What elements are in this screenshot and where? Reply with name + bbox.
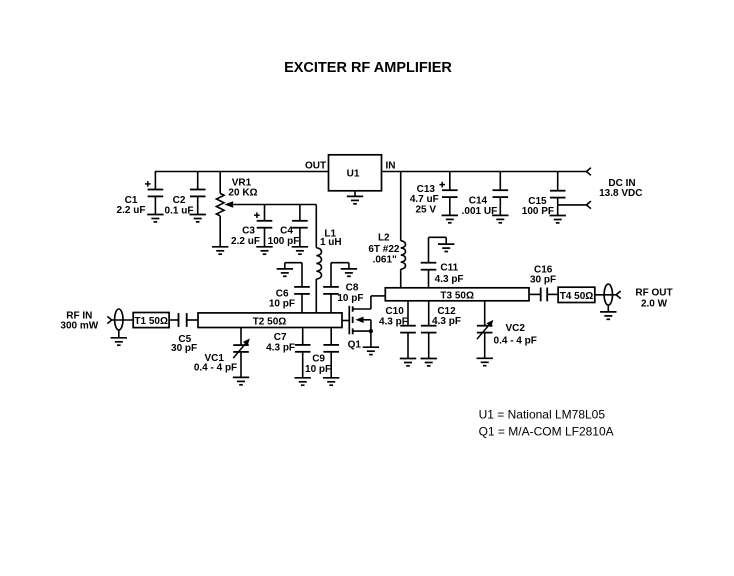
connector: RF OUT jack (coax) [604,284,612,312]
svg-text:U1: U1 [347,169,360,180]
svg-text:T3 50Ω: T3 50Ω [440,291,474,302]
wire: L1 to T2 [315,279,317,313]
capacitor C3 [231,205,272,247]
svg-text:OUT: OUT [305,161,326,172]
svg-text:L2: L2 [378,232,390,243]
wire: DC return from C15 [558,204,587,206]
node RF OUT label [635,288,672,310]
svg-text:2.2 uF: 2.2 uF [231,236,260,247]
svg-text:VC2: VC2 [505,323,525,334]
svg-text:Q1: Q1 [348,339,362,350]
note: U1 part number [479,408,606,422]
wire: U1 OUT rail [155,171,329,173]
svg-text:C11: C11 [440,263,458,274]
transmission line T3 [385,288,529,302]
title [284,60,452,76]
wire: C16 to T4 [547,293,558,295]
svg-text:4.3 pF: 4.3 pF [379,316,408,327]
svg-text:4.3 pF: 4.3 pF [266,342,295,353]
connector: DC IN return pin [587,201,591,209]
connector: DC IN positive pin [587,168,591,176]
ground of VR1 [212,247,228,254]
ground of RF OUT jack [600,312,616,319]
svg-text:1 uH: 1 uH [320,237,342,248]
note: Q1 part number [479,425,614,439]
svg-text:100 pF: 100 pF [268,236,300,247]
ground of C12 [421,359,437,366]
svg-text:100 PF: 100 PF [522,206,554,217]
svg-text:0.4 - 4 pF: 0.4 - 4 pF [494,335,537,346]
wire: C5 to T2 [187,319,198,321]
connector: RF IN plug [107,316,112,323]
transmission line T4 [558,287,595,302]
svg-text:0.4 - 4 pF: 0.4 - 4 pF [194,362,237,373]
capacitor C15 [522,172,566,218]
wire: T3 to C16 [529,293,541,295]
svg-text:2.0 W: 2.0 W [641,299,668,310]
node RF IN label [60,311,98,332]
wire: L2 to T3 [400,269,402,288]
inductor L2 [368,232,405,269]
ground of RF IN jack [111,338,127,345]
svg-text:30 pF: 30 pF [530,275,556,286]
transmission line T2 [198,313,342,328]
inductor L1 [316,228,341,279]
capacitor C2 [165,172,206,217]
ground of C7 [295,378,311,385]
svg-text:300 mW: 300 mW [60,320,98,331]
connector: RF IN jack (coax) [115,309,123,338]
capacitor C10 [379,301,416,359]
ground of C10 [400,359,416,366]
capacitor C9 [305,328,339,378]
svg-text:Q1 = M/A-COM LF2810A: Q1 = M/A-COM LF2810A [479,425,614,439]
ground of VC1 [233,377,249,384]
ground of C2 [190,215,206,222]
capacitor C4 [268,205,308,247]
connector: RF OUT pin [616,291,621,299]
svg-text:EXCITER RF AMPLIFIER: EXCITER RF AMPLIFIER [284,60,452,76]
wire: T4 to RF OUT jack [595,294,616,296]
svg-text:RF OUT: RF OUT [635,288,672,299]
capacitor C11 [421,237,464,287]
wire: U1 IN / DC rail [382,171,587,173]
node: Q1 source junction [369,329,373,333]
op-amp U1 (voltage regulator box) [305,155,396,191]
capacitor C12 [421,301,461,359]
ground of C8 [341,269,357,276]
ground of C9 [323,378,339,385]
svg-text:4.3 pF: 4.3 pF [432,316,461,327]
capacitor VC2 (variable) [477,301,537,359]
capacitor C6 [269,263,310,313]
wire: Q1 source to ground [370,331,372,347]
ground of C3 [256,247,272,254]
svg-text:10 pF: 10 pF [337,293,363,304]
ground of C14 [492,215,508,222]
capacitor VC1 (variable) [194,328,250,378]
svg-text:IN: IN [386,161,396,172]
capacitor C7 [266,328,310,378]
capacitor C5 [171,313,197,354]
capacitor C16 [530,265,556,302]
capacitor C8 [323,263,363,313]
ground of C15 [550,216,566,223]
ground of U1 [347,191,363,204]
transmission line T1 [133,313,169,328]
svg-text:20 KΩ: 20 KΩ [228,188,257,199]
wire: T1 to C5 [169,319,178,321]
wire: VR1 wiper to L1 [233,205,316,248]
ground of VC2 [477,358,493,365]
svg-text:U1 = National LM78L05: U1 = National LM78L05 [479,408,606,422]
ground of C4 [292,247,308,254]
svg-text:T2 50Ω: T2 50Ω [253,316,287,327]
svg-text:.061": .061" [373,254,397,265]
svg-text:30 pF: 30 pF [171,343,197,354]
resistor VR1 (potentiometer 20 K) [216,172,257,247]
svg-text:2.2 uF: 2.2 uF [117,205,146,216]
ground of C11 [438,244,454,251]
svg-text:13.8 VDC: 13.8 VDC [599,188,642,199]
svg-text:.001 UF: .001 UF [462,206,498,217]
ground of C6 [277,269,293,276]
svg-text:T4 50Ω: T4 50Ω [560,291,594,302]
svg-text:10 pF: 10 pF [305,364,331,375]
svg-text:0.1 uF: 0.1 uF [165,205,194,216]
capacitor C1 [117,172,164,217]
transistor Q1 (MOSFET) [342,296,385,351]
ground of C1 [147,215,163,222]
svg-text:25 V: 25 V [416,204,437,215]
ground of Q1 [363,347,379,354]
svg-text:T1 50Ω: T1 50Ω [134,316,168,327]
wire: DC rail to L2 [400,172,402,241]
ground of C13 [442,215,458,222]
svg-text:4.3 pF: 4.3 pF [435,274,464,285]
wire: jack to T1 [112,319,133,321]
node DC IN label [599,178,642,199]
capacitor C14 [462,172,508,217]
capacitor C13 [410,172,458,216]
svg-text:10 pF: 10 pF [269,298,295,309]
